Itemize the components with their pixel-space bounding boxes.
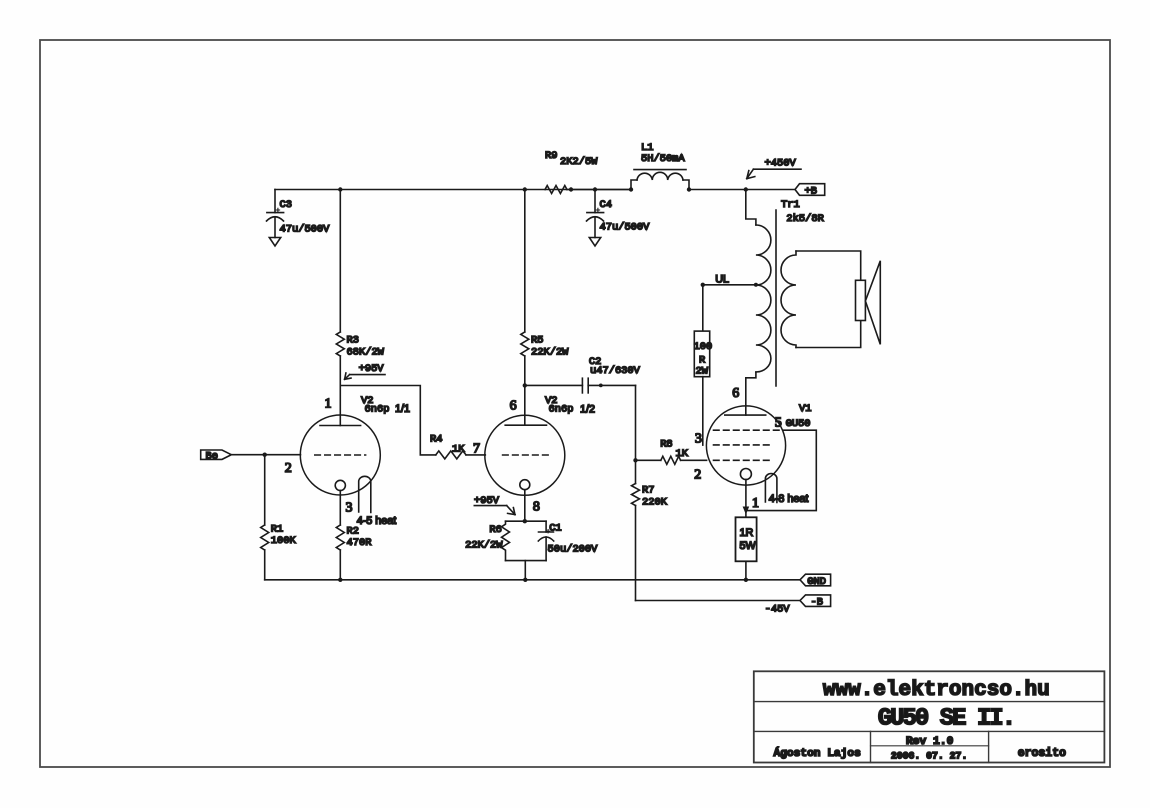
svg-text:GU50: GU50 (786, 418, 811, 430)
svg-text:V1: V1 (799, 403, 811, 415)
svg-text:6: 6 (510, 398, 517, 413)
ground symbol at C4 (589, 238, 600, 247)
svg-text:1K: 1K (452, 444, 465, 456)
svg-text:5: 5 (775, 415, 782, 430)
wire C2 down to R8 node (635, 385, 637, 460)
svg-text:47u/500V: 47u/500V (600, 222, 651, 234)
node junction R6C1/GND (523, 578, 527, 582)
svg-text:2: 2 (694, 467, 701, 482)
resistor R2 (336, 525, 371, 550)
tube V1 GU50 (694, 386, 811, 511)
svg-text:UL: UL (715, 274, 729, 286)
node junction L1 left (629, 187, 633, 191)
svg-text:Ágoston Lajos: Ágoston Lajos (774, 746, 862, 760)
node junction 1R/GND (744, 578, 748, 582)
svg-text:-45V: -45V (765, 603, 791, 615)
svg-text:22K/2W: 22K/2W (465, 539, 503, 551)
wire top B+ rail right of L1 (689, 189, 795, 191)
inductor L1 (631, 142, 689, 190)
wire cathode V2a to R2 (339, 491, 341, 526)
svg-text:220K: 220K (642, 497, 668, 509)
svg-text:50u/200V: 50u/200V (548, 544, 599, 556)
node label +95V with arrow (V2a anode) (345, 363, 385, 379)
svg-text:R3: R3 (347, 335, 359, 347)
wire R5 to anode (524, 356, 526, 425)
svg-text:R5: R5 (531, 335, 543, 347)
svg-text:7: 7 (473, 442, 480, 457)
svg-text:2K2/5W: 2K2/5W (560, 156, 598, 168)
wire column R3 (rail to tube V2a anode) (339, 190, 341, 333)
capacitor C4 (587, 190, 651, 238)
wire top B+ rail left (275, 189, 631, 191)
svg-text:R4: R4 (430, 434, 442, 446)
wire R6/C1 bottom bracket (506, 560, 547, 562)
svg-text:+95V: +95V (474, 495, 500, 507)
capacitor C3 (267, 190, 331, 238)
wire column R5 (rail to tube V2b anode) (524, 190, 526, 333)
resistor R7 (632, 460, 668, 508)
wire R1 bottom to GND rail (264, 550, 266, 580)
svg-text:3: 3 (346, 501, 353, 516)
svg-text:u47/630V: u47/630V (590, 365, 641, 377)
ground symbol at C3 (269, 238, 280, 247)
title block (754, 671, 1105, 762)
svg-text:100K: 100K (271, 535, 297, 547)
svg-text:68K/2W: 68K/2W (347, 347, 385, 359)
resistor R4 (430, 434, 466, 459)
svg-text:6n6p: 6n6p (549, 404, 574, 416)
svg-text:4-5 heat: 4-5 heat (357, 515, 397, 527)
svg-text:1/2: 1/2 (580, 403, 595, 415)
terminal -B (800, 595, 831, 609)
heater bracket 4-5 of V2a (357, 476, 397, 527)
svg-text:100: 100 (694, 341, 713, 353)
tube V2 half 1/2 (473, 395, 595, 514)
svg-text:1: 1 (325, 396, 332, 411)
wire R9 to C4 node (567, 189, 631, 191)
node label +450V with arrow (747, 158, 801, 179)
node junction R7/R8 (633, 458, 637, 462)
node junction +450V / Tr1 (744, 187, 748, 191)
svg-text:3: 3 (695, 431, 702, 446)
node junction L1 right (687, 187, 691, 191)
heater bracket 4-8 of V1 (765, 474, 808, 506)
capacitor C1 (538, 521, 598, 560)
wire g3 pin5 tie to cathode (746, 430, 816, 510)
resistor 100R 2W (box style) (694, 285, 713, 445)
resistor R8 (636, 438, 689, 464)
wire -B rail (636, 600, 801, 602)
svg-text:GU50 SE II.: GU50 SE II. (878, 706, 1014, 733)
svg-text:+95V: +95V (359, 363, 385, 375)
svg-text:C1: C1 (549, 523, 561, 535)
svg-text:+B: +B (805, 185, 817, 197)
wire R7 bottom to -B rail (635, 506, 637, 601)
wire R8 to V1 grid (681, 459, 707, 461)
svg-text:1: 1 (752, 496, 759, 511)
node junction after R9 (569, 187, 573, 191)
svg-text:Rev 1.0: Rev 1.0 (906, 736, 954, 748)
wire R3 to anode (339, 356, 341, 426)
svg-text:5W: 5W (740, 540, 757, 552)
svg-text:R1: R1 (271, 523, 283, 535)
terminal +B (795, 184, 825, 198)
svg-text:22K/2W: 22K/2W (531, 347, 569, 359)
svg-text:8: 8 (533, 499, 540, 514)
node UL tap (701, 274, 758, 287)
svg-text:1R: 1R (740, 527, 754, 539)
resistor 1R 5W (box style) (736, 513, 757, 580)
resistor R1 (261, 523, 297, 550)
transformer Tr1 secondary winding (781, 251, 796, 348)
svg-text:www.elektroncso.hu: www.elektroncso.hu (823, 679, 1050, 702)
node junction R1 (263, 453, 267, 457)
svg-text:4-8 heat: 4-8 heat (769, 493, 809, 505)
tube V2 half 1/1 (285, 395, 410, 515)
node junction C2 tap (523, 383, 527, 387)
node junction R3/rail (338, 187, 342, 191)
svg-text:Be: Be (206, 450, 218, 462)
wire R2 bottom to GND rail (339, 550, 341, 580)
wire secondary loop to speaker (796, 251, 861, 348)
resistor R3 (336, 332, 384, 359)
svg-text:R2: R2 (347, 526, 359, 538)
wire combo to GND rail (524, 561, 526, 580)
node label +95V with arrow (V2b cathode) (474, 495, 515, 515)
svg-text:1K: 1K (676, 448, 689, 460)
wire R6/C1 top bracket (506, 520, 547, 522)
speaker (856, 261, 881, 345)
svg-text:-B: -B (811, 597, 823, 609)
node junction C4/rail (593, 187, 597, 191)
node junction R5/rail (523, 187, 527, 191)
resistor R9 (545, 150, 598, 194)
svg-text:R: R (699, 354, 705, 366)
svg-text:6: 6 (732, 386, 739, 401)
node junction cathode arrow (743, 507, 750, 515)
svg-text:2W: 2W (696, 366, 709, 378)
svg-text:erosito: erosito (1018, 747, 1066, 760)
svg-text:R6: R6 (489, 524, 501, 536)
svg-text:47u/500V: 47u/500V (280, 224, 331, 236)
svg-text:Tr1: Tr1 (781, 199, 800, 211)
svg-text:470R: 470R (347, 537, 372, 549)
svg-text:R8: R8 (660, 438, 672, 450)
svg-text:R7: R7 (642, 485, 654, 497)
svg-text:C4: C4 (600, 199, 612, 211)
wire GND rail (265, 579, 800, 581)
svg-text:2k5/8R: 2k5/8R (786, 213, 823, 225)
wire cathode V2b down (524, 490, 526, 522)
wire cathode V1 down (745, 480, 747, 511)
wire R4 to grid pin 7 (466, 454, 485, 456)
wire Be to grid pin 2 (231, 454, 300, 456)
wire R1 top (264, 455, 266, 525)
node junction R2/GND (338, 578, 342, 582)
node junction cathode / R6C1 (523, 519, 527, 523)
wire anode V2a to R4 (coupling bracket) (340, 386, 436, 455)
svg-text:6n6p: 6n6p (365, 404, 390, 416)
svg-text:1/1: 1/1 (395, 403, 410, 415)
svg-text:+450V: +450V (765, 158, 797, 170)
svg-text:R9: R9 (545, 150, 557, 162)
transformer Tr1 core (775, 210, 777, 386)
svg-text:C3: C3 (280, 199, 292, 211)
resistor R6 (465, 521, 509, 560)
terminal Be (input) (201, 450, 232, 462)
svg-text:5H/50mA: 5H/50mA (641, 153, 685, 165)
capacitor C2 (525, 356, 641, 393)
svg-text:GND: GND (807, 576, 826, 588)
svg-text:2: 2 (285, 461, 292, 476)
resistor R5 (521, 332, 569, 359)
terminal GND (800, 574, 831, 588)
svg-text:2006. 07. 27.: 2006. 07. 27. (891, 750, 967, 761)
transformer Tr1 primary winding (746, 190, 824, 416)
